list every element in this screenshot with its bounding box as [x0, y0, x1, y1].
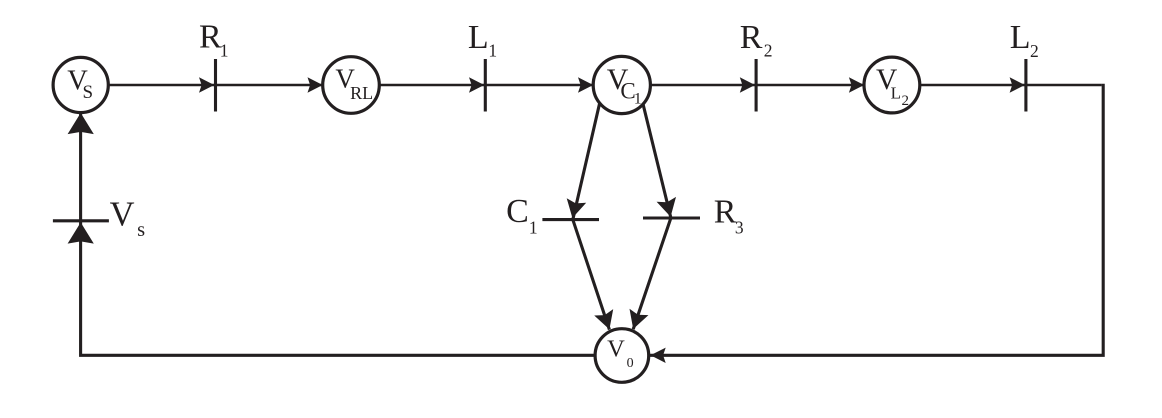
svg-text:C: C — [506, 193, 529, 230]
svg-text:1: 1 — [488, 40, 497, 60]
svg-text:R: R — [714, 194, 737, 231]
svg-text:2: 2 — [764, 40, 773, 60]
tick C1 — [542, 218, 599, 221]
wire: V_L2 to top-right corner — [920, 84, 1102, 87]
svg-text:R: R — [199, 19, 222, 56]
tick R1 — [214, 59, 217, 112]
svg-text:1: 1 — [220, 40, 229, 60]
node V_RL circle — [323, 57, 380, 114]
svg-text:1: 1 — [634, 90, 642, 107]
svg-text:1: 1 — [529, 217, 538, 237]
wire: V_RL to V_C1 main line — [379, 84, 593, 87]
svg-text:L: L — [1010, 19, 1031, 56]
svg-text:R: R — [740, 19, 763, 56]
svg-text:L: L — [891, 83, 901, 102]
svg-text:2: 2 — [902, 93, 910, 109]
node V_L2 circle — [864, 57, 920, 113]
arrowhead up at Vs tick — [68, 222, 94, 243]
svg-text:V: V — [607, 336, 625, 363]
tick R2 — [755, 59, 758, 112]
tick R3 — [643, 216, 700, 219]
svg-text:RL: RL — [350, 83, 373, 103]
svg-text:S: S — [83, 82, 94, 103]
wire: diagonal V_C1 to C1 tick to V_0 — [573, 103, 610, 329]
svg-text:2: 2 — [1030, 41, 1039, 61]
wire: bottom line V_0 to left corner and up to V_S — [81, 113, 596, 355]
arrowhead at C1 tick — [563, 198, 587, 220]
arrowhead into V_0 top-right — [624, 309, 649, 332]
node V_C1 circle — [593, 56, 650, 113]
arrowhead at R1 tick — [199, 77, 214, 92]
arrowhead at R3 tick — [657, 197, 681, 219]
arrowhead at R2 tick — [740, 77, 755, 92]
svg-text:3: 3 — [735, 217, 744, 237]
svg-text:V: V — [110, 196, 135, 234]
node V_S circle — [53, 57, 108, 112]
arrowhead up into V_S — [68, 113, 94, 134]
tick L2 — [1024, 59, 1027, 112]
arrowhead into V_0 top-left — [594, 309, 619, 332]
tick Vs — [53, 219, 109, 222]
arrowhead into V_RL — [308, 77, 323, 92]
svg-text:s: s — [137, 219, 145, 241]
arrowhead into V_0 from right — [651, 348, 666, 363]
arrowhead into V_C1 — [578, 77, 593, 92]
arrowhead into V_L2 — [849, 77, 864, 92]
arrowhead at L1 tick — [469, 77, 484, 92]
wire: right loop down to V_0 — [649, 84, 1103, 356]
svg-text:0: 0 — [627, 356, 634, 371]
wire: diagonal V_C1 to R3 tick to V_0 — [633, 104, 671, 329]
arrowhead at L2 tick — [1010, 77, 1025, 92]
node V_0 circle — [595, 329, 649, 383]
wire: V_C1 to V_L2 main line — [651, 84, 865, 87]
svg-text:L: L — [468, 19, 489, 56]
tick L1 — [484, 59, 487, 112]
wire: V_S to V_RL main line — [108, 84, 322, 87]
